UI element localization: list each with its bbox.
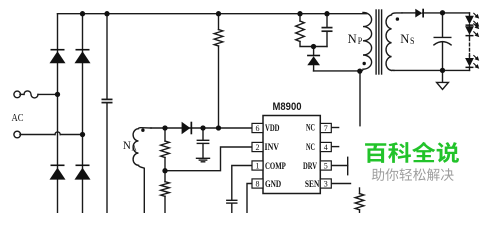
svg-text:N: N xyxy=(123,138,131,152)
svg-text:SEN: SEN xyxy=(305,179,319,190)
svg-text:3: 3 xyxy=(324,179,328,188)
svg-text:5: 5 xyxy=(324,161,328,170)
svg-text:N: N xyxy=(348,31,358,46)
svg-text:S: S xyxy=(410,36,415,46)
svg-text:1: 1 xyxy=(256,161,260,170)
svg-text:P: P xyxy=(358,36,363,46)
svg-text:COMP: COMP xyxy=(265,161,286,172)
svg-text:A: A xyxy=(132,142,138,152)
svg-text:NC: NC xyxy=(306,123,315,134)
svg-text:DRV: DRV xyxy=(303,161,317,172)
svg-text:GND: GND xyxy=(265,179,281,190)
svg-text:7: 7 xyxy=(324,124,328,133)
svg-text:N: N xyxy=(400,31,410,46)
svg-text:2: 2 xyxy=(256,143,260,152)
svg-text:M8900: M8900 xyxy=(273,101,302,113)
svg-text:VDD: VDD xyxy=(265,123,280,134)
svg-text:AC: AC xyxy=(12,112,24,124)
svg-text:8: 8 xyxy=(256,179,260,188)
svg-text:INV: INV xyxy=(265,142,280,153)
svg-text:NC: NC xyxy=(306,142,315,153)
svg-text:6: 6 xyxy=(256,124,260,133)
svg-text:4: 4 xyxy=(324,143,328,152)
